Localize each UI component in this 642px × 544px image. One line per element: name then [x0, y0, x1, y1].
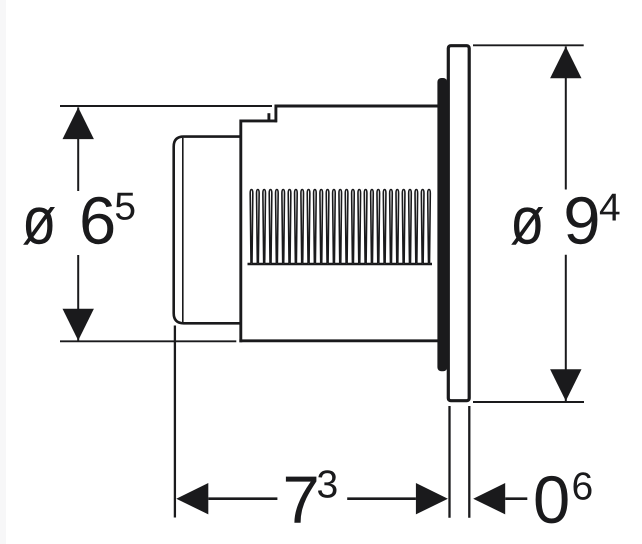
- body bottom edge: [239, 339, 439, 342]
- body top edge: [275, 105, 440, 108]
- dim 7³: arrow right: [416, 483, 448, 514]
- dim ø6⁵: arrow up: [63, 107, 94, 139]
- dim 7³: label: [286, 477, 317, 523]
- dim ø9⁴: dimension line lower segment: [565, 255, 567, 401]
- dim ø6⁵: bottom extension line: [60, 340, 236, 342]
- dim ø6⁵: dimension line upper segment: [77, 107, 79, 191]
- flange (wall plate): [448, 46, 469, 401]
- body step vertical: [274, 105, 277, 123]
- dim ø9⁴: arrow down: [550, 369, 581, 401]
- dim ø9⁴: top extension line: [473, 44, 584, 46]
- dim 7³: arrow left: [176, 483, 208, 514]
- dim 7³: left extension line: [174, 326, 176, 518]
- dim 0⁶: label: [536, 476, 568, 524]
- dim 0⁶: dimension line stub: [505, 497, 527, 500]
- dim ø9⁴: dimension line upper segment: [565, 47, 567, 190]
- dim ø6⁵: top extension line: [60, 105, 272, 107]
- body notch hook: [267, 113, 270, 122]
- dim ø6⁵: arrow down: [63, 309, 94, 341]
- dim ø6⁵: dimension line lower segment: [77, 255, 79, 341]
- body cap-side top edge: [242, 119, 277, 122]
- thread bottom line: [248, 263, 433, 266]
- cap (actuator button, left): [174, 137, 241, 324]
- cap inner face line: [182, 138, 184, 322]
- dim 7³: dimension line right segment: [347, 497, 416, 500]
- dim 0⁶: left extension line: [468, 406, 470, 518]
- dim ø9⁴: bottom extension line: [473, 401, 584, 403]
- dim ø9⁴: label: [511, 207, 543, 245]
- thread crest loops: [250, 190, 430, 264]
- gasket (dark seal behind flange): [437, 78, 447, 371]
- body left edge: [239, 120, 242, 343]
- dim ø9⁴: arrow up: [550, 47, 581, 79]
- dim 7³: dimension line left segment: [208, 497, 277, 500]
- dim ø6⁵: label: [23, 207, 55, 245]
- dim 7³: right extension line: [448, 406, 450, 518]
- dim 0⁶: arrow left-pointing: [473, 483, 505, 514]
